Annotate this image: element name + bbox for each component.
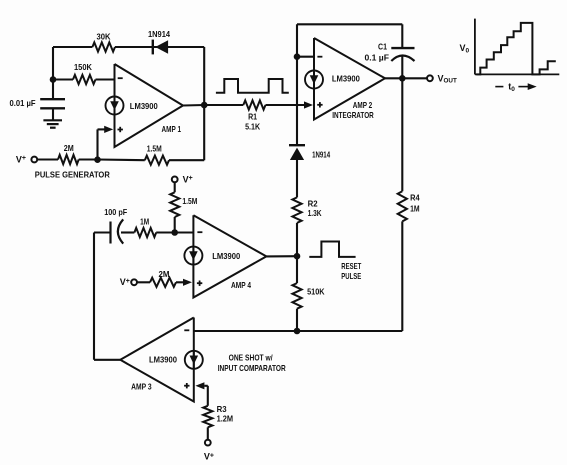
wire node E to AMP4 minus: [175, 231, 194, 233]
node A junction: [50, 76, 57, 83]
wire 1M to node E: [156, 231, 175, 233]
node AMP1 output: [201, 102, 208, 109]
wire cap to 1M: [121, 231, 134, 233]
terminal VOUT: [427, 75, 433, 81]
wire node B to plus input: [96, 129, 98, 159]
resistor 150K: [73, 75, 96, 84]
svg-text:RESET: RESET: [341, 261, 362, 271]
svg-text:PULSE GENERATOR: PULSE GENERATOR: [35, 170, 110, 180]
svg-text:AMP 2: AMP 2: [353, 100, 373, 110]
svg-text:LM3900: LM3900: [332, 74, 360, 84]
waveform square wave: [216, 79, 289, 93]
svg-text:1.5M: 1.5M: [182, 196, 197, 206]
capacitor C1: [401, 24, 403, 48]
arrow into AMP1 plus: [104, 126, 113, 133]
svg-text:150K: 150K: [74, 62, 93, 72]
resistor R4: [398, 191, 407, 221]
wire AMP1 output column: [203, 47, 205, 160]
wire R4 top: [401, 78, 403, 191]
wire 510K to node D: [296, 309, 298, 331]
wire V+ to 2M AMP4: [137, 281, 150, 283]
terminal V+ AMP3: [205, 440, 211, 446]
svg-text:0.01 µF: 0.01 µF: [10, 98, 36, 108]
ground: [43, 119, 62, 121]
svg-text:2M: 2M: [159, 269, 170, 279]
node D junction (bottom): [294, 328, 301, 335]
svg-text:C1: C1: [378, 42, 387, 52]
svg-text:1N914: 1N914: [312, 149, 330, 159]
svg-text:LM3900: LM3900: [130, 101, 158, 111]
wire R3 to V+: [207, 427, 209, 440]
pin minus AMP4: [197, 231, 202, 233]
svg-text:PULSE: PULSE: [341, 271, 361, 281]
pin minus AMP3: [184, 329, 189, 331]
capacitor 0.01uF: [40, 98, 65, 100]
svg-text:510K: 510K: [307, 286, 325, 296]
svg-text:R2: R2: [308, 199, 318, 209]
svg-text:1.3K: 1.3K: [308, 208, 323, 218]
wire 2M to node B: [79, 158, 98, 160]
wire AMP3 apex to loop: [94, 359, 120, 361]
wire AMP1 apex to node: [183, 104, 204, 107]
svg-text:AMP 1: AMP 1: [162, 124, 182, 134]
svg-text:2M: 2M: [64, 143, 74, 153]
resistor 1.5M (AMP4): [170, 192, 179, 217]
op-amp AMP4 triangle: [193, 215, 266, 297]
wire R4 bottom to node D: [401, 221, 403, 331]
waveform reset pulse: [309, 242, 355, 257]
wire loop corner left: [94, 231, 111, 233]
pin plus AMP3: [184, 385, 189, 387]
label t0 axis: [495, 86, 503, 88]
resistor R2: [292, 197, 301, 223]
svg-text:5.1K: 5.1K: [245, 121, 261, 131]
svg-text:AMP 4: AMP 4: [231, 280, 251, 290]
graph staircase trace: [476, 23, 556, 75]
svg-text:0.1 µF: 0.1 µF: [365, 53, 390, 63]
current source symbol AMP2: [305, 71, 323, 89]
resistor 2M (AMP1): [58, 155, 79, 164]
op-amp AMP3 triangle (points left): [120, 318, 194, 402]
pin plus AMP4: [197, 282, 202, 284]
current source symbol AMP3: [185, 351, 203, 369]
resistor R1: [243, 100, 265, 109]
svg-text:LM3900: LM3900: [212, 251, 240, 261]
wire plus arrow to R3: [204, 385, 207, 387]
svg-text:R3: R3: [217, 404, 227, 414]
svg-text:1M: 1M: [410, 204, 420, 214]
wire 1.5M feedback: [98, 158, 145, 161]
wire feedback top: [297, 23, 402, 25]
capacitor 100pF: [109, 222, 111, 244]
resistor 30K: [92, 42, 115, 51]
diode 1N914 (reset, vertical): [289, 144, 305, 146]
svg-text:INTEGRATOR: INTEGRATOR: [332, 110, 374, 120]
svg-text:R4: R4: [410, 193, 420, 203]
wire R2 to node C: [296, 223, 298, 256]
svg-text:R1: R1: [248, 111, 257, 121]
terminal V+ AMP4 top: [172, 177, 178, 183]
node AMP2 minus: [294, 53, 301, 60]
resistor 2M (AMP4): [150, 278, 176, 287]
resistor 1.5M (AMP1): [145, 156, 169, 165]
terminal V+ pulse gen input: [31, 157, 37, 163]
wire AMP3 minus to node D: [194, 330, 297, 332]
terminal V+ AMP4 plus: [131, 279, 137, 285]
wire V+ to 2M: [37, 158, 58, 160]
diode 1N914 (pulse generator feedback): [152, 40, 154, 55]
resistor R3: [203, 406, 212, 428]
graph axes: [474, 19, 476, 75]
wire AMP2 minus input: [297, 56, 314, 58]
svg-text:100 pF: 100 pF: [104, 207, 127, 217]
svg-text:1.2M: 1.2M: [217, 414, 234, 424]
wire V+ to 1.5M: [174, 182, 176, 192]
pin plus AMP1: [118, 129, 123, 131]
svg-text:1M: 1M: [140, 216, 149, 226]
wire AMP4 output: [266, 255, 297, 257]
resistor 1M (AMP4): [134, 228, 156, 237]
wire R1 to AMP2 plus: [266, 104, 306, 106]
op-amp AMP2 triangle: [314, 38, 385, 120]
pin minus AMP1: [118, 77, 123, 79]
resistor 510K: [292, 283, 301, 309]
wire top feedback (node A to AMP1 output column): [53, 46, 92, 48]
svg-text:1.5M: 1.5M: [147, 144, 162, 154]
op-amp AMP1 triangle: [115, 64, 184, 147]
arrow into AMP2 plus: [304, 101, 313, 108]
arrow into AMP4 plus: [183, 279, 192, 286]
svg-text:1N914: 1N914: [148, 29, 170, 39]
wire 1.5M to node E: [174, 217, 176, 233]
svg-text:30K: 30K: [97, 31, 112, 41]
svg-text:AMP 3: AMP 3: [131, 382, 152, 392]
current source symbol AMP1: [106, 97, 124, 115]
svg-text:LM3900: LM3900: [149, 354, 177, 364]
node E junction (AMP4 minus): [171, 229, 178, 236]
node AMP2 output: [399, 75, 406, 82]
wire left column upper: [296, 24, 298, 145]
node B junction: [94, 156, 101, 163]
current source symbol AMP4: [184, 247, 202, 265]
wire AMP1 output to R1: [204, 104, 243, 106]
svg-text:INPUT COMPARATOR: INPUT COMPARATOR: [218, 363, 286, 373]
wire node C to 510K: [296, 256, 298, 283]
wire node A vertical: [52, 47, 54, 99]
wire minus input AMP1: [53, 78, 73, 80]
node C junction (AMP4 out): [294, 253, 301, 260]
wire 2M to arrow: [176, 281, 184, 283]
pin plus AMP2: [317, 104, 322, 106]
wire AMP2 output: [385, 77, 427, 79]
svg-text:ONE SHOT w/: ONE SHOT w/: [229, 353, 273, 363]
arrow into AMP3 plus: [195, 382, 204, 389]
pin minus AMP2: [317, 56, 322, 58]
